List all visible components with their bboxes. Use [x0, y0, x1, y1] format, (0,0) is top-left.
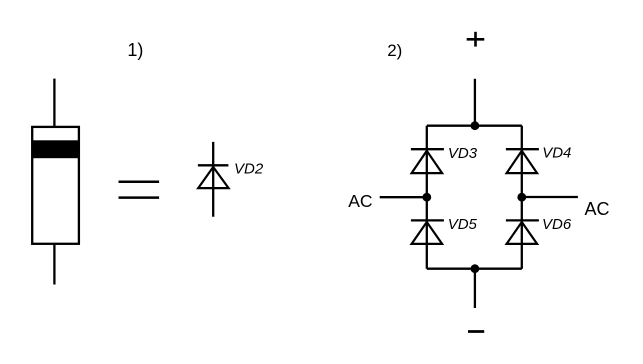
svg-text:VD5: VD5 — [448, 216, 478, 233]
wire bottom node down — [474, 269, 476, 308]
label 1) — [127, 40, 143, 60]
label VD6 — [542, 216, 572, 233]
diode VD1 package bottom lead — [53, 244, 55, 285]
diode VD2 vertical lead — [212, 142, 214, 217]
wire right column — [521, 126, 523, 269]
svg-text:VD6: VD6 — [542, 216, 572, 233]
diode VD5 triangle — [412, 222, 443, 244]
svg-text:VD4: VD4 — [542, 144, 571, 161]
diode VD6 triangle — [507, 222, 537, 244]
label AC right — [585, 199, 610, 219]
wire plus to top node — [474, 79, 476, 126]
equals sign top bar — [119, 180, 160, 183]
wire bottom rail — [427, 268, 522, 270]
wire left AC — [380, 196, 427, 198]
label 2) — [387, 41, 402, 60]
label AC left — [348, 191, 372, 211]
svg-text:1): 1) — [127, 40, 143, 60]
minus terminal — [468, 330, 484, 333]
diode VD6 cathode bar — [506, 219, 539, 221]
node left AC junction — [422, 193, 431, 202]
diode VD5 cathode bar — [411, 219, 444, 221]
svg-text:AC: AC — [585, 199, 610, 219]
svg-text:2): 2) — [387, 41, 402, 60]
equals sign bottom bar — [119, 196, 160, 199]
svg-text:AC: AC — [348, 191, 372, 211]
node bottom junction — [471, 264, 480, 273]
diode VD1 cathode band — [32, 140, 79, 158]
svg-text:VD2: VD2 — [234, 161, 264, 178]
svg-text:VD3: VD3 — [448, 145, 478, 162]
diode VD4 triangle — [507, 151, 537, 173]
diode VD2 cathode bar — [198, 164, 229, 166]
diode VD4 cathode bar — [506, 148, 539, 150]
label VD4 — [542, 144, 571, 161]
diode VD1 package top lead — [53, 79, 55, 127]
node top junction — [471, 121, 480, 130]
wire right AC — [522, 196, 578, 198]
label VD3 — [448, 145, 478, 162]
node right AC junction — [517, 193, 526, 202]
wire top rail — [427, 125, 522, 127]
plus terminal — [467, 32, 485, 47]
label VD2 — [234, 161, 264, 178]
diode VD3 triangle — [412, 151, 443, 173]
wire left column — [426, 126, 428, 269]
diode VD2 triangle — [198, 167, 228, 188]
diode VD1 package body — [32, 127, 79, 244]
diode VD3 cathode bar — [411, 148, 444, 150]
label VD5 — [448, 216, 478, 233]
